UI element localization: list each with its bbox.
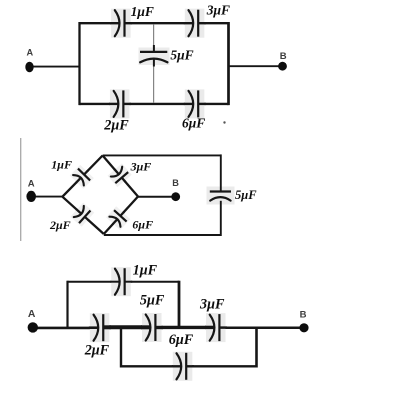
svg-text:5μF: 5μF (235, 188, 257, 202)
svg-text:1μF: 1μF (133, 263, 158, 279)
svg-text:A: A (27, 47, 34, 57)
svg-text:2μF: 2μF (84, 342, 110, 358)
svg-text:3μF: 3μF (206, 2, 230, 17)
svg-text:5μF: 5μF (170, 47, 193, 62)
svg-text:A: A (28, 179, 35, 190)
svg-text:1μF: 1μF (131, 4, 154, 19)
svg-text:6μF: 6μF (169, 332, 194, 348)
svg-text:A: A (28, 309, 36, 320)
svg-text:5μF: 5μF (140, 293, 165, 309)
svg-text:2μF: 2μF (49, 218, 71, 232)
svg-text:2μF: 2μF (103, 118, 129, 134)
svg-text:3μF: 3μF (199, 297, 225, 313)
svg-text:6μF: 6μF (132, 218, 153, 232)
svg-text:B: B (172, 178, 179, 188)
svg-text:6μF: 6μF (182, 115, 205, 130)
svg-text:3μF: 3μF (130, 160, 152, 174)
svg-text:1μF: 1μF (51, 158, 72, 172)
svg-text:B: B (280, 51, 287, 62)
svg-text:B: B (300, 309, 307, 320)
